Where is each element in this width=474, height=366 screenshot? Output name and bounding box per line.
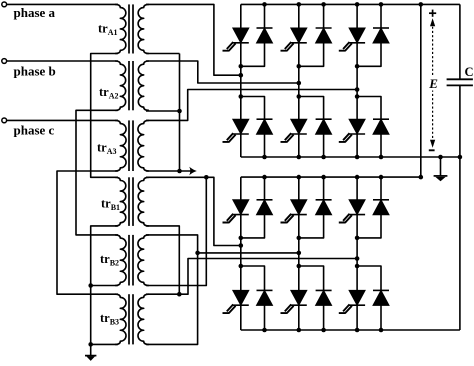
transformer trB1 primary winding [115,177,126,226]
node B leg3 lower pair junction [355,264,360,269]
junction on bridge A bottom rail [458,155,463,160]
transformer trA3 primary winding [115,120,126,171]
wire bridge A negative bottom rail [241,156,460,158]
diode DA3a A leg3 upper [373,27,389,29]
thyristor TB3a B leg3 upper [349,200,365,215]
thyristor TA1a A leg1 upper [233,28,249,43]
transformer trA2 primary winding [115,61,126,110]
diode DA1a A leg1 upper [257,27,273,29]
label - (negative rail) [429,149,435,151]
diode DA1b A leg1 lower [257,118,273,120]
junction on bridge A bottom rail [297,155,302,160]
wire A leg3 upper diode return [357,43,381,66]
transformer trB2 core [128,235,130,286]
wire A leg3 lower thyristor bottom lead [356,134,358,157]
ground (DC bus negative) [440,157,442,176]
transformer trB3 core [128,294,130,344]
junction trB2 secondary top / trB3 secondary bottom [195,251,200,256]
diode DB3a B leg3 upper [373,199,389,201]
transformer trA3 secondary winding [138,120,149,171]
wire phase c to trA3 primary top [7,119,118,121]
junction group A star / trA3 [177,169,182,174]
node B leg3 upper pair junction [355,236,360,241]
wire trB3 primary bottom to neutral [91,343,118,345]
wire trB1 secondary bottom to trB3 secondary top node [146,226,179,294]
wire A leg2 mid vertical [298,43,300,97]
wire phase b to trA2 primary top [7,60,118,62]
wire B leg3 lower thyristor top lead [356,266,358,290]
transformer trB2 secondary winding [138,235,149,286]
junction on bridge B top rail [262,175,267,180]
wire B leg1 upper diode top lead [264,177,266,200]
wire B leg2 upper diode return [299,215,324,238]
wire A leg3 mid vertical [356,43,358,97]
wire B leg2 lower thyristor bottom lead [298,305,300,330]
node A leg3 lower pair junction [355,94,360,99]
wire A leg3 lower diode bottom lead [380,134,382,157]
wire A leg1 upper diode return [241,43,265,66]
transformer trB2 primary winding [115,235,126,286]
thyristor TB2a B leg2 upper [291,200,307,215]
thyristor TA3a A leg3 upper [349,28,365,43]
svg-text:C: C [465,65,474,79]
junction trB1 secondary top / trB2 secondary bottom [204,175,209,180]
wire trA3 secondary bottom to star point [146,170,193,172]
transformer trA2 core [128,61,130,110]
svg-text:phase a: phase a [14,5,56,20]
diode DB3b B leg3 lower [373,289,389,291]
wire B leg1 mid vertical [240,215,242,266]
junction on bridge B bottom rail [355,328,360,333]
wire A leg2 lower thyristor bottom lead [298,134,300,157]
wire A leg3 lower thyristor top lead [356,97,358,120]
wire A leg1 lower diode bottom lead [264,134,266,157]
junction on bridge A top rail [262,2,267,7]
thyristor TA3b A leg3 lower [349,119,365,134]
wire B leg3 lower diode top lead [357,266,381,290]
junction on bridge A bottom rail [379,155,384,160]
thyristor TB1a B leg1 upper [233,200,249,215]
wire A leg2 lower thyristor top lead [298,97,300,120]
wire B leg1 upper diode return [241,215,265,238]
junction on bridge A bottom rail [355,155,360,160]
junction neutral / trB3 primary bottom [88,342,93,347]
junction on bridge A top rail [379,2,384,7]
junction on bridge B top rail [419,175,424,180]
node B leg2 lower pair junction [297,264,302,269]
wire A leg3 lower diode top lead [357,97,381,120]
junction trB3 secondary top / trB1 secondary bottom [177,292,182,297]
junction on bridge B top rail [321,175,326,180]
wire B leg1 lower thyristor bottom lead [240,305,242,330]
junction on bridge A bottom rail [262,155,267,160]
wire B leg1 thyristor top lead [240,177,242,200]
junction on bridge B bottom rail [379,328,384,333]
wire B leg1 lower diode bottom lead [264,305,266,330]
diode DA2a A leg2 upper [316,27,332,29]
ground (primary neutral) [90,344,92,355]
wire A leg1 lower thyristor bottom lead [240,134,242,157]
junction on bridge A bottom rail [438,155,443,160]
node A leg3 upper pair junction [355,64,360,69]
thyristor TA2b A leg2 lower [291,119,307,134]
junction on bridge B bottom rail [297,328,302,333]
transformer trA2 secondary winding [138,61,149,110]
wire trB2 primary bottom to neutral [91,285,118,287]
wire B leg2 thyristor top lead [298,177,300,200]
wire B leg2 mid vertical [298,215,300,266]
wire bridge B negative bottom rail [241,329,460,331]
wire trB1 primary bottom to neutral [91,226,118,345]
wire trB3 secondary bottom to trB2 secondary top node [146,253,198,345]
wire trB2 secondary bottom to trB1 secondary top node [146,177,206,285]
thyristor TB2b B leg2 lower [291,290,307,305]
wire phase a to trA1 primary top [7,3,118,5]
wire trA2 secondary top to bridge A leg2 mid [146,61,299,83]
node B leg1 mid (transformer feed) [239,243,244,248]
junction on bridge A bottom rail [321,155,326,160]
wire B leg3 upper diode top lead [380,177,382,200]
arrow marker group A star point [189,167,197,175]
svg-text:phase b: phase b [14,64,56,79]
transformer trA1 primary winding [115,4,126,53]
wire A leg2 upper diode top lead [323,4,325,28]
thyristor TA2a A leg2 upper [291,28,307,43]
node A leg1 upper pair junction [239,64,244,69]
junction on bridge A top rail [419,2,424,7]
wire B leg1 lower thyristor top lead [240,266,242,290]
wire A leg1 upper diode top lead [264,4,266,28]
transformer trB3 secondary winding [138,294,149,344]
node B leg2 upper pair junction [297,236,302,241]
wire B leg3 upper diode return [357,215,381,238]
wire bridge A positive top rail [241,3,460,5]
node A leg2 lower pair junction [297,94,302,99]
junction on bridge A top rail [297,2,302,7]
wire group A star vertical [179,54,181,172]
wire A leg1 thyristor top lead [240,4,242,28]
transformer trA3 core [128,120,130,171]
junction neutral / trB2 primary bottom [88,283,93,288]
transformer trB1 core [128,177,130,226]
wire B leg3 thyristor top lead [356,177,358,200]
node B leg1 upper pair junction [239,236,244,241]
wire trB1 secondary top to bridge B leg1 mid [146,177,241,245]
diode DB2b B leg2 lower [316,289,332,291]
node A leg1 lower pair junction [239,94,244,99]
E output voltage dimension arrow [432,23,434,144]
diode DB1b B leg1 lower [257,289,273,291]
diode DA2b A leg2 lower [316,118,332,120]
wire B leg3 lower thyristor bottom lead [356,305,358,330]
phase c input terminal [2,118,7,123]
phase b input terminal [2,59,7,64]
wire A leg2 upper diode return [299,43,324,66]
wire A leg2 thyristor top lead [298,4,300,28]
node B leg1 lower pair junction [239,264,244,269]
transformer trB3 primary winding [115,294,126,344]
wire A leg3 upper diode top lead [380,4,382,28]
wire B leg3 lower diode bottom lead [380,305,382,330]
wire A leg2 lower diode bottom lead [323,134,325,157]
node B leg3 mid (transformer feed) [355,256,360,261]
junction on bridge A top rail [321,2,326,7]
thyristor TB3b B leg3 lower [349,290,365,305]
wire B leg2 upper diode top lead [323,177,325,200]
diode DB1a B leg1 upper [257,199,273,201]
wire A leg1 mid vertical [240,43,242,97]
junction on bridge B bottom rail [262,328,267,333]
diode DB2a B leg2 upper [316,199,332,201]
node A leg1 mid (transformer feed) [239,73,244,78]
svg-text:E: E [428,76,438,91]
phase a input terminal [2,2,7,7]
wire trB2 secondary top to bridge B leg2 mid [146,235,299,253]
wire trA1 secondary top to bridge A leg1 mid [146,4,241,75]
wire B leg2 lower diode bottom lead [323,305,325,330]
wire trA1 secondary bottom to star point [146,53,180,55]
transformer trA1 core [128,4,130,53]
wire B leg2 lower thyristor top lead [298,266,300,290]
node B leg2 mid (transformer feed) [297,251,302,256]
junction on bridge B top rail [355,175,360,180]
transformer trB1 secondary winding [138,177,149,226]
wire trA3 secondary top to bridge A leg3 mid [146,90,357,121]
junction group A star / trA2 [177,109,182,114]
svg-text:phase c: phase c [14,123,55,138]
wire A leg1 lower thyristor top lead [240,97,242,120]
wire trA3 primary bottom to trB3 primary top (phase c chain) [57,171,118,294]
node A leg2 mid (transformer feed) [297,81,302,86]
label + (positive rail) [429,12,436,14]
wire bridge B positive top rail [241,176,421,178]
thyristor TA1b A leg1 lower [233,119,249,134]
wire B leg1 lower diode top lead [241,266,265,290]
wire trA2 secondary bottom to star point [146,110,180,112]
wire B leg2 lower diode top lead [299,266,324,290]
diode DA3b A leg3 lower [373,118,389,120]
wire A leg3 thyristor top lead [356,4,358,28]
wire bridge A top rail to bridge B top rail [420,4,422,177]
transformer trA1 secondary winding [138,4,149,53]
wire trA1 primary bottom to trB1 primary top (phase a chain) [91,54,118,178]
wire A leg1 lower diode top lead [241,97,265,120]
junction on bridge B top rail [297,175,302,180]
node A leg2 upper pair junction [297,64,302,69]
junction on bridge B top rail [379,175,384,180]
junction on bridge B bottom rail [321,328,326,333]
wire A leg2 lower diode top lead [299,97,324,120]
thyristor TB1b B leg1 lower [233,290,249,305]
wire trA2 primary bottom to trB2 primary top (phase b chain) [76,110,118,235]
node A leg3 mid (transformer feed) [355,87,360,92]
junction on bridge A top rail [355,2,360,7]
capacitor C [459,4,461,79]
wire B leg3 mid vertical [356,215,358,266]
wire trB3 secondary top to bridge B leg3 mid [146,259,357,295]
